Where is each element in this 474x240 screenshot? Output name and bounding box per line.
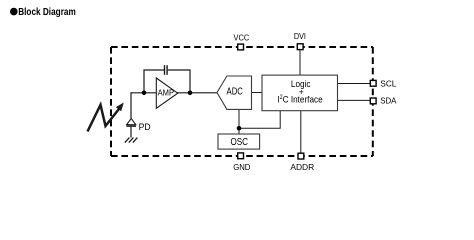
pin ADDR (290, 153, 314, 172)
photodiode PD (126, 119, 136, 138)
pin SDA (370, 95, 397, 105)
node: clock junction (237, 126, 242, 131)
svg-text:VCC: VCC (234, 33, 250, 43)
wire: PD node to AMP input (131, 93, 157, 119)
wire: clock junction to Logic bottom (239, 111, 280, 129)
svg-text:ADDR: ADDR (290, 162, 314, 172)
svg-text:ADC: ADC (227, 87, 243, 98)
svg-text:GND: GND (233, 162, 250, 172)
light arrow (incident light zigzag) (88, 103, 124, 132)
IC boundary (dashed) top edge (111, 46, 373, 48)
wire: Logic to SDA pin (338, 99, 371, 101)
wire: ADC to Logic (252, 92, 263, 94)
ADC block (217, 76, 252, 109)
svg-text:DVI: DVI (294, 31, 306, 41)
wire: ADC bottom to OSC top (238, 109, 240, 134)
svg-text:OSC: OSC (230, 137, 248, 148)
IC boundary (dashed) bottom edge (111, 155, 373, 157)
node: AMP input junction (142, 91, 147, 96)
pin SCL (370, 78, 396, 88)
wire: feedback loop right (168, 70, 190, 93)
wire: Logic bottom to ADDR pin (300, 111, 302, 154)
ground (chassis) (125, 138, 138, 143)
svg-text:I2C Interface: I2C Interface (277, 94, 322, 104)
op-amp AMP (156, 78, 177, 108)
wire: AMP output to ADC input (177, 92, 218, 94)
svg-text:PD: PD (139, 122, 151, 132)
svg-text:Block Diagram: Block Diagram (18, 7, 76, 18)
OSC block (218, 134, 260, 149)
pin GND (233, 153, 250, 172)
IC boundary (dashed) right edge (372, 47, 374, 156)
wire: feedback loop left (144, 70, 164, 93)
pin DVI (294, 31, 306, 49)
svg-text:SDA: SDA (380, 95, 397, 105)
svg-text:SCL: SCL (380, 78, 396, 88)
node: AMP output junction (188, 91, 193, 96)
svg-text:AMP: AMP (158, 87, 175, 97)
Logic + I2C Interface block (262, 75, 338, 111)
capacitor (feedback) (165, 65, 168, 75)
pin VCC (234, 33, 250, 50)
IC boundary (dashed) left edge (110, 47, 112, 156)
heading "Block Diagram" (10, 7, 76, 18)
wire: DVI to Logic top (299, 50, 301, 75)
wire: Logic to SCL pin (338, 83, 371, 85)
